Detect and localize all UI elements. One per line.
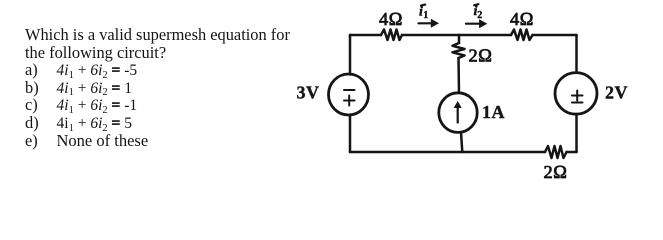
polarity minus of 3V source (344, 89, 355, 91)
wire: right branch bottom (2V source down to corner) (575, 114, 578, 152)
current source 1A (439, 93, 477, 133)
wire: top-left segment from left corner to 4ohm resistor (350, 35, 381, 36)
wire: left branch top (corner down to 3V source) (349, 35, 352, 75)
resistor 2ohm middle vertical (453, 43, 465, 58)
resistor 2ohm bottom (545, 146, 567, 158)
wire: top-right segment to right corner (533, 35, 577, 36)
current arrow i2 (466, 23, 481, 25)
wire: middle branch top (junction to 2ohm vertical resistor) (458, 35, 461, 43)
resistor 4ohm top-left (381, 30, 402, 41)
wire: bottom segment from left corner to 2ohm resistor (350, 151, 545, 154)
wire: top middle segment between top-left resistor and junction (402, 34, 459, 37)
svg-text:2Ω: 2Ω (544, 162, 568, 182)
voltage source 3V (329, 74, 369, 115)
wire: right branch top (corner down to 2V source) (575, 35, 578, 73)
wire: middle branch between resistor and 1A source (457, 58, 460, 93)
node: top junction of middle branch (459, 34, 511, 37)
svg-text:4Ω: 4Ω (379, 9, 403, 29)
polarity minus of 2V source (572, 102, 583, 104)
svg-text:4Ω: 4Ω (510, 9, 534, 29)
svg-text:1A: 1A (482, 102, 505, 122)
voltage source 2V (555, 73, 597, 115)
svg-text:2Ω: 2Ω (469, 46, 493, 66)
resistor 4ohm top-right (511, 30, 533, 41)
svg-text:3V: 3V (297, 83, 320, 103)
polarity plus of 3V source (344, 96, 355, 106)
wire: bottom-right corner segment (567, 151, 577, 152)
wire: left branch bottom (3V source down to bottom-left corner) (349, 115, 352, 152)
svg-text:1: 1 (423, 10, 429, 21)
svg-text:2V: 2V (605, 82, 628, 102)
arrow of 1A current source pointing up (457, 104, 459, 123)
svg-text:2: 2 (477, 10, 483, 21)
wire: middle branch bottom (1A source to bottom wire) (461, 132, 462, 152)
current arrow i1 (419, 22, 434, 24)
polarity plus of 2V source (572, 91, 583, 101)
